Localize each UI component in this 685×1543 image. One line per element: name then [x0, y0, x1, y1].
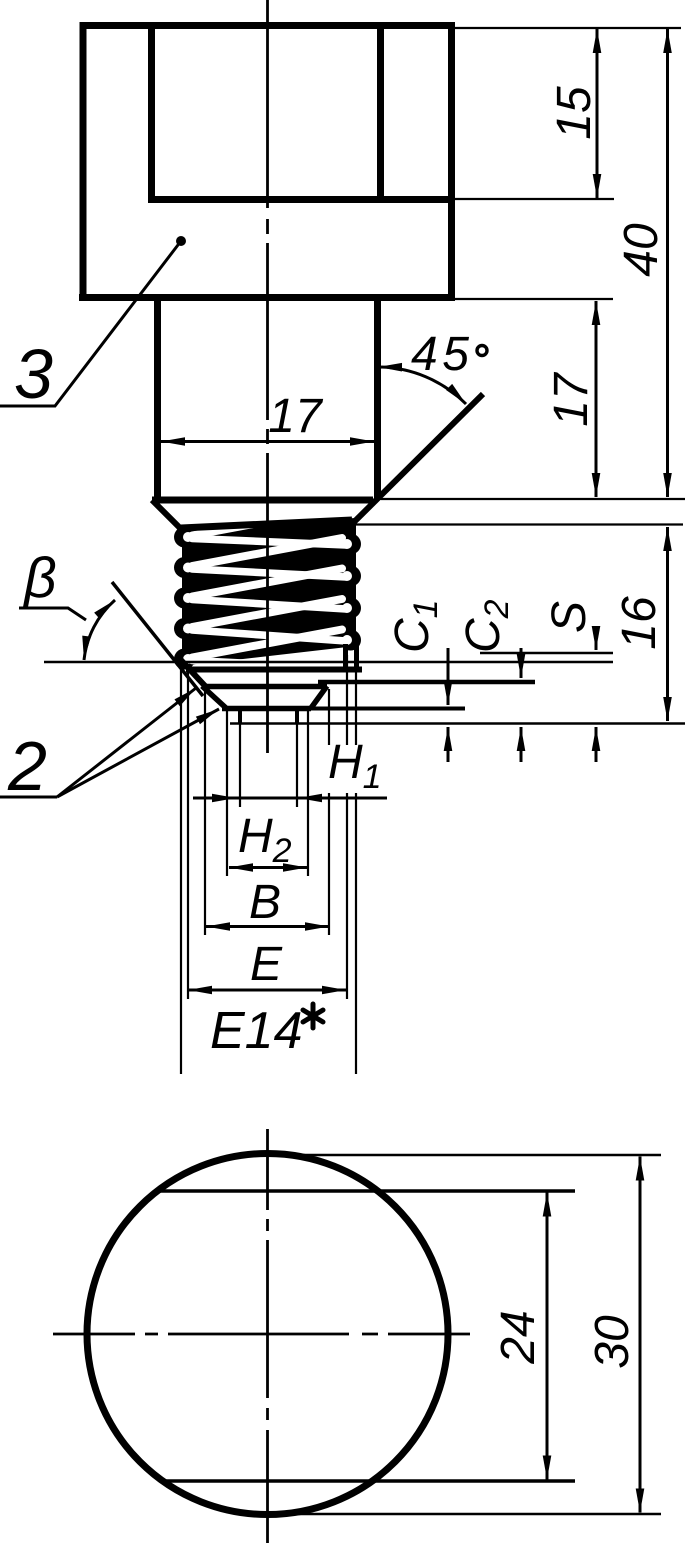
insulator [202, 686, 327, 709]
main centerline [266, 0, 269, 755]
45 deg chamfer construction line [349, 394, 483, 527]
dim 30 [639, 1157, 642, 1513]
svg-text:40: 40 [615, 223, 668, 277]
v centerline [266, 1129, 269, 1543]
skirt left slant [179, 658, 206, 687]
cap inner recess [148, 29, 455, 200]
THREAD [174, 508, 361, 684]
cap outer rectangle [79, 22, 455, 300]
dim B [206, 925, 329, 928]
svg-text:3: 3 [14, 335, 53, 413]
dim H1 (outside arrows) [193, 797, 236, 800]
thread top edge [181, 520, 352, 528]
extension thread top right [353, 523, 683, 525]
reference lines [44, 661, 613, 663]
left chamfer [152, 500, 181, 529]
lower extension verticals [181, 655, 356, 1074]
white back stripes (into right cores) [192, 539, 346, 669]
right bulge discs [340, 534, 361, 651]
label 3 leader [176, 236, 186, 246]
h centerline [53, 1333, 473, 1336]
neck [152, 300, 378, 500]
dim 17 (neck width) [161, 440, 374, 443]
svg-text:S: S [543, 601, 596, 633]
dim H2 [229, 866, 307, 869]
svg-text:24: 24 [492, 1310, 545, 1364]
circle [87, 1154, 448, 1515]
extension neck bottom [381, 498, 685, 500]
svg-text:17: 17 [545, 371, 598, 427]
dim E [188, 989, 346, 992]
top tangent [272, 1154, 661, 1157]
dim 15 [596, 29, 599, 198]
dim 16 [666, 527, 669, 721]
svg-text:β: β [22, 546, 57, 610]
dim 40 [666, 29, 669, 497]
svg-text:30: 30 [586, 1315, 639, 1369]
contact pin [238, 709, 242, 724]
svg-text:E: E [250, 938, 283, 991]
rim verticals [343, 644, 348, 669]
svg-text:17: 17 [268, 390, 324, 443]
extension line recess bottom [455, 198, 614, 200]
svg-text:B: B [249, 876, 281, 929]
top chord [157, 1189, 575, 1192]
dim 24 [546, 1193, 549, 1480]
left bulge discs [174, 527, 195, 670]
svg-text:2: 2 [7, 727, 47, 805]
svg-text:E14: E14 [210, 1002, 303, 1060]
rim line [186, 667, 362, 673]
svg-text:16: 16 [613, 596, 666, 650]
bottom tangent [272, 1513, 661, 1516]
svg-text:15: 15 [548, 86, 601, 140]
extension line top [455, 27, 681, 29]
extension line cap bottom [455, 298, 613, 300]
white front stripes (rising, capped short) [192, 508, 342, 684]
bottom chord [165, 1479, 575, 1482]
45deg arc leader [378, 367, 466, 404]
dim 17 right [595, 301, 598, 497]
white bulge cores [183, 532, 352, 664]
base envelope [182, 518, 356, 666]
